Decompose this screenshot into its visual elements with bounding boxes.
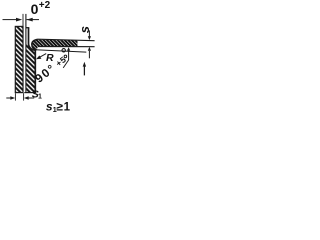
horizontal sheet s (hatched) xyxy=(32,39,95,50)
sheet top face xyxy=(38,39,95,41)
vertical plate s1 (hatched) xyxy=(15,26,23,92)
extension tick left (plate face) xyxy=(22,14,24,27)
svg-text:1: 1 xyxy=(64,101,71,113)
note s1 >= 1 xyxy=(46,99,71,113)
svg-text:R: R xyxy=(46,52,54,64)
leg bottom edge xyxy=(24,92,36,94)
sheet left rounded cap xyxy=(32,39,38,50)
sheet bottom face xyxy=(38,46,95,48)
inner boundary B with bend radius xyxy=(29,28,36,93)
svg-text:s: s xyxy=(77,26,92,33)
flange outer face line A xyxy=(25,14,27,93)
dimension 0+2 arrow left xyxy=(3,18,23,22)
label 0+2 xyxy=(31,0,51,17)
svg-text:+2: +2 xyxy=(39,0,51,11)
label S1 xyxy=(32,89,42,101)
weld leg (hatched body) xyxy=(26,43,35,92)
svg-text:1: 1 xyxy=(38,94,42,101)
angle dimension arrow (points up to sheet bottom) xyxy=(63,47,70,68)
svg-text:0: 0 xyxy=(31,1,39,17)
label 90 deg +5 deg (rotated) xyxy=(32,49,68,86)
s thickness dimension (right) xyxy=(88,30,90,58)
svg-text:≥: ≥ xyxy=(56,100,63,114)
up arrow (right middle) xyxy=(83,62,86,76)
R leader with arrow xyxy=(36,54,46,60)
flange tip cap xyxy=(26,27,29,29)
angle reference ray xyxy=(35,50,86,52)
dimension 0+2 arrow right xyxy=(27,18,40,22)
S1 dimension (bottom) xyxy=(14,93,16,100)
